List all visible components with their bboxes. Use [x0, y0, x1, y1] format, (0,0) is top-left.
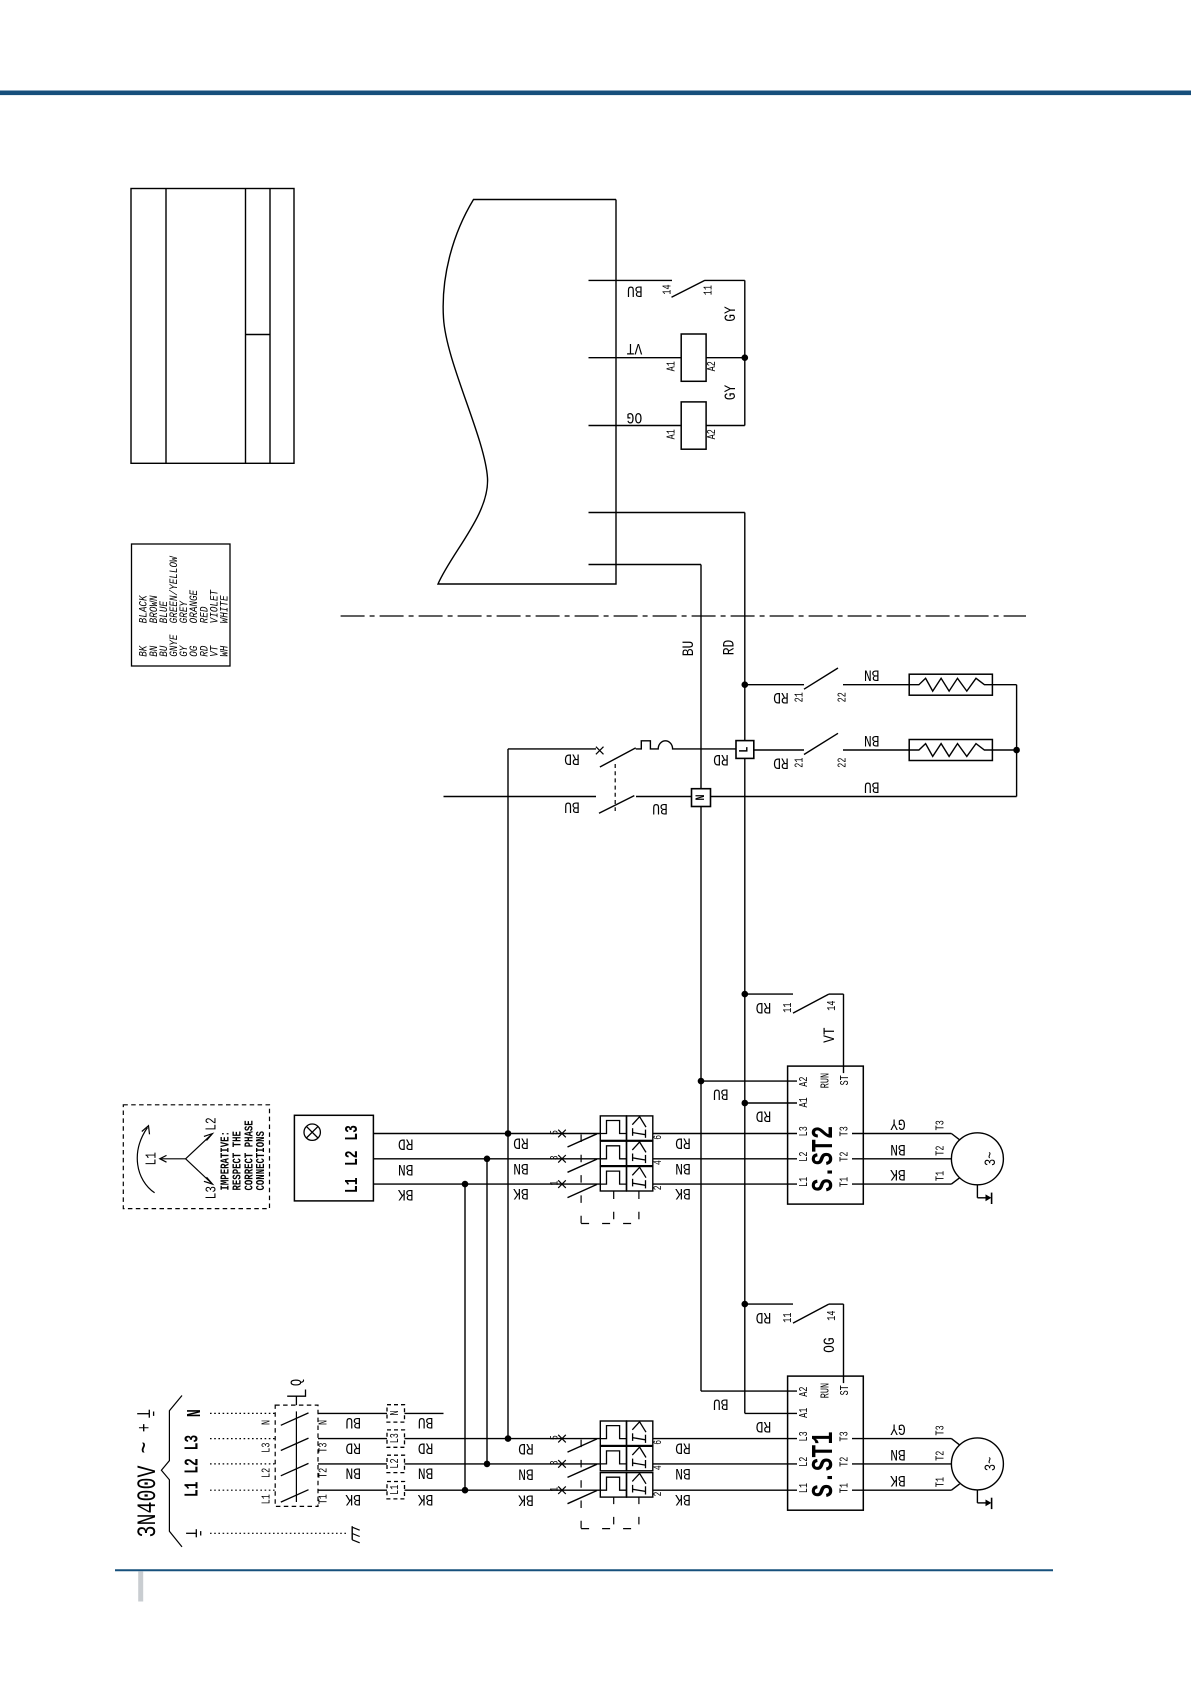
motor breaker Q1 thermal element pole 1 — [600, 1473, 626, 1498]
motor breaker Q2 trip linkage (dashed) — [580, 1135, 582, 1224]
motor breaker Q1 blade 1 — [568, 1491, 598, 1504]
phase rotation note box (dashed) — [123, 1105, 269, 1209]
title block divider column 3 — [269, 189, 271, 464]
S.ST2 terminal stub L2 — [780, 1158, 798, 1160]
svg-text:BU: BU — [713, 1394, 729, 1411]
svg-text:T3: T3 — [317, 1443, 331, 1453]
svg-text:BU: BU — [713, 1084, 729, 1101]
S.ST2 terminal stub T1 — [852, 1183, 880, 1185]
svg-text:~: ~ — [131, 1441, 162, 1453]
wire T3 to motor M1 — [880, 1438, 951, 1440]
S.ST1 terminal stub L2 — [780, 1463, 798, 1465]
start switch S.ST2 blade — [793, 994, 829, 1013]
incoming line L2 (dotted) — [210, 1463, 276, 1465]
motor breaker Q1 magnetic element pole 2 — [627, 1446, 653, 1471]
disconnect pole RD blade — [600, 748, 636, 767]
wire relay K1 A2 to GY bus — [706, 357, 745, 359]
svg-text:S.ST1: S.ST1 — [808, 1431, 843, 1497]
main switch Q pole L3 blade — [281, 1438, 309, 1450]
phasor arrow L3 — [186, 1159, 212, 1183]
motor breaker Q1 blade 3 — [568, 1464, 598, 1477]
svg-text:RD: RD — [513, 1133, 529, 1150]
node junction RD tap S.ST1 — [505, 1435, 512, 1442]
node junction GY at relay K1 A2 — [742, 354, 749, 361]
svg-text:BN: BN — [890, 1139, 906, 1156]
motor breaker Q2 blade 3 — [568, 1159, 598, 1172]
wire relay K2 A2 to GY bus — [706, 425, 745, 427]
board terminal stub BU — [589, 279, 673, 281]
svg-text:BN: BN — [418, 1463, 434, 1480]
svg-text:N: N — [260, 1420, 274, 1425]
wire breaker 2 to S.ST2 L3 — [653, 1133, 780, 1135]
disconnect pole RD wire from bus — [508, 748, 596, 750]
wire BK after terminal block — [405, 1489, 601, 1491]
svg-text:VT: VT — [626, 339, 642, 356]
incoming PE ground symbol — [186, 1532, 196, 1534]
thermostat 2 blade — [804, 733, 838, 754]
wire RD bus vertical — [744, 513, 746, 1414]
node junction RD to heater 1 — [742, 681, 749, 688]
svg-text:OG: OG — [822, 1337, 839, 1353]
terminal L — [736, 741, 754, 759]
svg-text:14: 14 — [661, 284, 675, 294]
svg-text:RD: RD — [756, 1308, 772, 1325]
svg-text:3: 3 — [548, 1155, 561, 1160]
svg-text:RD: RD — [721, 640, 738, 656]
svg-text:22: 22 — [836, 758, 850, 768]
svg-text:BU: BU — [652, 799, 668, 816]
svg-text:A1: A1 — [798, 1097, 812, 1107]
S.ST1 terminal stub T1 — [852, 1489, 880, 1491]
supply grouping brace — [161, 1396, 182, 1547]
svg-text:GY: GY — [890, 1114, 906, 1131]
wire colour legend text — [138, 556, 232, 657]
svg-text:N: N — [389, 1410, 403, 1415]
title block divider column 1 — [165, 189, 167, 464]
main switch Q handle — [287, 1390, 305, 1406]
svg-text:BN: BN — [518, 1464, 534, 1481]
wire terminal N to heater return — [711, 796, 1017, 798]
main switch Q pole N blade — [281, 1413, 309, 1425]
thermostat 1 blade — [804, 668, 838, 689]
S.ST1 terminal stub T3 — [852, 1438, 880, 1440]
terminal block L1 (dashed) — [387, 1482, 405, 1499]
svg-text:BK: BK — [890, 1165, 906, 1182]
svg-text:ST: ST — [839, 1075, 853, 1085]
motor breaker Q2 blade 1 — [568, 1184, 598, 1197]
wire terminal L to thermostat 2 — [754, 749, 804, 751]
incoming PE line (dotted) — [210, 1532, 346, 1534]
svg-text:RD: RD — [756, 998, 772, 1015]
svg-text:4: 4 — [652, 1465, 665, 1470]
wire RD to thermostat 1 — [745, 684, 804, 686]
motor breaker Q2 thermal element pole 1 — [600, 1167, 626, 1192]
svg-text:11: 11 — [702, 285, 716, 295]
phasor arrow L2 — [186, 1135, 212, 1159]
wire breaker 2 to S.ST2 L2 — [653, 1158, 780, 1160]
svg-text:L: L — [738, 747, 753, 753]
svg-text:A2: A2 — [706, 361, 720, 371]
motor M2 (3-phase) — [951, 1133, 1003, 1185]
svg-text:RD: RD — [418, 1438, 434, 1455]
svg-text:T2: T2 — [934, 1146, 948, 1156]
wire BN after terminal block — [405, 1463, 601, 1465]
motor breaker Q1 input terminal 3 cross — [558, 1460, 566, 1468]
node junction RD to S.ST2 start switch — [742, 991, 749, 998]
wire BU bus vertical — [700, 565, 702, 1392]
svg-text:L1: L1 — [143, 1152, 160, 1165]
svg-text:BU: BU — [345, 1413, 361, 1430]
motor breaker Q2 thermal element pole 3 — [600, 1116, 626, 1141]
main switch Q pole L2 blade — [281, 1463, 309, 1475]
svg-text:21: 21 — [793, 692, 807, 702]
wire BU from main switch — [318, 1412, 387, 1414]
svg-text:T1: T1 — [934, 1171, 948, 1181]
svg-text:RD: RD — [398, 1134, 414, 1151]
svg-text:A1: A1 — [798, 1408, 812, 1418]
svg-text:RD: RD — [675, 1438, 691, 1455]
PE earth symbol — [351, 1526, 353, 1540]
S.ST1 terminal stub A1 — [780, 1412, 798, 1414]
svg-text:L3: L3 — [203, 1186, 220, 1199]
svg-text:RD: RD — [713, 750, 729, 767]
svg-text:L1: L1 — [342, 1177, 363, 1193]
wire GY vertical (relay coil bus) — [744, 280, 746, 425]
svg-text:L3: L3 — [389, 1433, 403, 1443]
S.ST2 terminal stub L3 — [780, 1133, 798, 1135]
svg-text:RD: RD — [345, 1438, 361, 1455]
svg-text:WH WHITE: WH WHITE — [219, 595, 232, 657]
motor breaker Q2 magnetic element pole 3 — [627, 1116, 653, 1141]
terminal block L3 (dashed) — [387, 1430, 405, 1447]
board terminal stub VT — [589, 357, 682, 359]
S.ST2 terminal stub A2 — [780, 1080, 798, 1082]
motor breaker Q1 thermal element pole 3 — [600, 1421, 626, 1446]
svg-text:GY: GY — [723, 384, 740, 400]
svg-text:RD: RD — [518, 1439, 534, 1456]
thermostat contact B1 blade — [672, 280, 706, 297]
wire T3 to motor M2 — [880, 1133, 951, 1135]
motor breaker Q2 input terminal 1 cross — [558, 1180, 566, 1188]
svg-text:L2: L2 — [389, 1458, 403, 1468]
control board outline (break line) — [438, 200, 616, 585]
node junction RD at S.ST2 A1 — [742, 1100, 749, 1107]
svg-text:4: 4 — [652, 1160, 665, 1165]
wire heater 2 to junction — [992, 749, 1016, 751]
svg-text:11: 11 — [782, 1003, 796, 1013]
wire T1 to motor M2 — [880, 1183, 951, 1185]
svg-text:N: N — [694, 794, 709, 800]
wire heater 1 to BU return — [992, 684, 1016, 686]
svg-text:BN: BN — [675, 1464, 691, 1481]
motor breaker Q1 blade 5 — [568, 1439, 598, 1452]
svg-text:14: 14 — [826, 1001, 840, 1011]
title block frame — [131, 189, 294, 464]
svg-text:3~: 3~ — [983, 1457, 1001, 1471]
motor breaker Q2 thermal element pole 2 — [600, 1141, 626, 1166]
node junction heater 2 return — [1013, 747, 1020, 754]
motor breaker Q1 magnetic element pole 3 — [627, 1421, 653, 1446]
svg-text:BN: BN — [345, 1463, 361, 1480]
svg-text:BK: BK — [518, 1490, 534, 1507]
svg-text:T3: T3 — [934, 1120, 948, 1130]
svg-text:T2: T2 — [934, 1451, 948, 1461]
svg-text:Q: Q — [289, 1379, 307, 1386]
incoming line L3 (dotted) — [210, 1438, 276, 1440]
S.ST1 terminal stub L3 — [780, 1438, 798, 1440]
disconnect pole BU blade — [599, 796, 634, 814]
svg-text:A2: A2 — [798, 1387, 812, 1397]
motor M1 earth connection — [976, 1490, 978, 1503]
svg-text:BU: BU — [564, 797, 580, 814]
svg-text:T2: T2 — [317, 1468, 331, 1478]
svg-text:ST: ST — [839, 1385, 853, 1395]
node junction RD to S.ST1 start switch — [742, 1301, 749, 1308]
wire RD after terminal block — [405, 1438, 601, 1440]
soft starter S.ST2 box — [788, 1066, 864, 1204]
relay coil K2 — [681, 402, 706, 449]
svg-text:6: 6 — [652, 1135, 665, 1140]
motor breaker Q2 input terminal 3 cross — [558, 1155, 566, 1163]
svg-text:RD: RD — [756, 1106, 772, 1123]
wire T2 to motor M2 — [880, 1158, 951, 1160]
motor breaker Q2 magnetic element pole 2 — [627, 1141, 653, 1166]
disconnect pole RD contact cross — [596, 747, 604, 755]
svg-text:A2: A2 — [706, 429, 720, 439]
svg-text:CONNECTIONS: CONNECTIONS — [255, 1131, 269, 1191]
svg-text:5: 5 — [548, 1130, 561, 1135]
svg-text:L3: L3 — [260, 1443, 274, 1453]
svg-text:L1 L2 L3: L1 L2 L3 — [181, 1435, 203, 1497]
main switch Q pole L1 blade — [281, 1490, 309, 1502]
svg-text:RD: RD — [564, 749, 580, 766]
svg-text:GY: GY — [890, 1419, 906, 1436]
wire BN riser to S.ST2 — [486, 1159, 488, 1464]
soft starter S.ST1 box — [788, 1376, 864, 1510]
phase wire L2 (lamp to breaker 2) — [373, 1158, 600, 1160]
svg-text:T1: T1 — [934, 1477, 948, 1487]
svg-text:BU: BU — [681, 641, 698, 657]
terminal block N (dashed) — [387, 1405, 405, 1422]
footer caret mark — [138, 1572, 143, 1602]
node junction BN tap S.ST1 — [484, 1461, 491, 1468]
svg-text:BK: BK — [417, 1490, 433, 1507]
svg-text:BU: BU — [418, 1413, 434, 1430]
phasor diagram centre — [162, 1158, 186, 1160]
board terminal stub BU (neutral) — [589, 564, 702, 566]
svg-text:S.ST2: S.ST2 — [808, 1126, 843, 1192]
motor breaker Q1 magnetic element pole 1 — [627, 1473, 653, 1498]
svg-text:6: 6 — [652, 1440, 665, 1445]
motor breaker Q1 input terminal 5 cross — [558, 1435, 566, 1443]
motor breaker Q2 magnetic element pole 1 — [627, 1167, 653, 1192]
svg-text:L3: L3 — [342, 1125, 363, 1141]
svg-text:BN: BN — [398, 1159, 414, 1176]
wire colour legend box — [132, 544, 231, 666]
svg-text:2: 2 — [652, 1185, 665, 1190]
svg-text:21: 21 — [793, 758, 807, 768]
wire RD from main switch — [318, 1438, 387, 1440]
svg-text:L1: L1 — [260, 1494, 274, 1504]
svg-text:RUN: RUN — [819, 1383, 833, 1398]
phase note text — [219, 1120, 268, 1190]
svg-text:BK: BK — [398, 1185, 414, 1202]
wire RD to start switch S.ST2 — [745, 993, 793, 995]
S.ST1 terminal stub L1 — [780, 1489, 798, 1491]
svg-text:11: 11 — [782, 1313, 796, 1323]
wire blade to terminal N — [636, 796, 692, 798]
motor breaker Q2 blade 5 — [568, 1134, 598, 1147]
title block row divider — [246, 334, 271, 336]
svg-text:BU: BU — [627, 281, 643, 298]
svg-text:BK: BK — [890, 1471, 906, 1488]
svg-text:BN: BN — [513, 1158, 529, 1175]
wire RD riser to S.ST2 — [507, 749, 509, 1439]
wire BU bus to S.ST2 A2 — [701, 1080, 780, 1082]
wire RD bus to S.ST2 A1 — [745, 1102, 780, 1104]
svg-text:3~: 3~ — [983, 1152, 1001, 1166]
heating element R2 — [909, 740, 992, 761]
node junction BK tap S.ST2 — [462, 1181, 469, 1188]
phase wire L1 (lamp to breaker 2) — [373, 1183, 600, 1185]
wire BN from main switch — [318, 1463, 387, 1465]
footer rule — [115, 1569, 1053, 1571]
header rule (blue bar) — [0, 91, 1191, 96]
svg-text:+: + — [135, 1423, 156, 1432]
title block divider column 2 — [245, 189, 247, 464]
svg-text:BN: BN — [864, 665, 880, 682]
incoming line N (dotted) — [210, 1412, 276, 1414]
motor breaker Q1 thermal element pole 2 — [600, 1446, 626, 1471]
main switch Q enclosure (dashed) — [275, 1405, 318, 1506]
wire RD bus to S.ST1 A1 — [745, 1412, 780, 1414]
motor M2 earth connection — [976, 1185, 978, 1198]
node junction BK tap S.ST1 — [462, 1487, 469, 1494]
svg-text:A1: A1 — [665, 429, 679, 439]
motor breaker Q1 input terminal 1 cross — [558, 1486, 566, 1494]
svg-text:BU: BU — [864, 777, 880, 794]
board terminal stub RD — [589, 512, 745, 514]
heating element R1 — [909, 674, 992, 695]
wire BU bus to S.ST1 A2 — [701, 1390, 780, 1392]
svg-text:L2: L2 — [260, 1468, 274, 1478]
indicator lamp symbol — [304, 1124, 320, 1140]
wire breaker 1 to S.ST1 L3 — [653, 1438, 780, 1440]
svg-text:3N400V: 3N400V — [133, 1465, 164, 1538]
disconnect linkage (dashed) — [614, 764, 616, 811]
svg-text:VT: VT — [822, 1027, 839, 1043]
svg-text:BN: BN — [864, 731, 880, 748]
wire from contact B1 to GY net — [705, 279, 745, 281]
svg-text:1: 1 — [548, 1181, 561, 1186]
node junction RD tap S.ST2 — [505, 1130, 512, 1137]
svg-text:BK: BK — [513, 1184, 529, 1201]
motor breaker Q2 input terminal 5 cross — [558, 1130, 566, 1138]
wire breaker 1 to S.ST1 L2 — [653, 1463, 780, 1465]
svg-text:22: 22 — [836, 692, 850, 702]
svg-text:L2: L2 — [203, 1117, 220, 1130]
wire BK from main switch — [318, 1489, 387, 1491]
S.ST2 terminal stub T3 — [852, 1133, 880, 1135]
terminal block L2 (dashed) — [387, 1455, 405, 1472]
supply PE symbol (in rating) — [137, 1413, 149, 1415]
svg-text:BN: BN — [890, 1445, 906, 1462]
svg-text:OG: OG — [627, 408, 643, 425]
incoming line L1 (dotted) — [210, 1489, 276, 1491]
wire start switch S.ST2 to ST input — [829, 993, 844, 995]
S.ST2 terminal stub T2 — [852, 1158, 880, 1160]
S.ST1 terminal stub T2 — [852, 1463, 880, 1465]
wire T1 to motor M1 — [880, 1489, 951, 1491]
main switch Q linkage — [295, 1411, 297, 1502]
svg-text:RD: RD — [675, 1133, 691, 1150]
svg-text:N: N — [317, 1420, 331, 1425]
S.ST2 terminal stub L1 — [780, 1183, 798, 1185]
motor breaker Q1 trip linkage (dashed) — [580, 1440, 582, 1529]
node junction BU at S.ST2 A2 — [698, 1078, 705, 1085]
svg-text:14: 14 — [826, 1311, 840, 1321]
svg-text:BK: BK — [675, 1490, 691, 1507]
board terminal stub OG — [589, 425, 682, 427]
motor M1 (3-phase) — [951, 1438, 1003, 1490]
S.ST1 terminal stub A2 — [780, 1390, 798, 1392]
phasor arrow L1 — [160, 1155, 167, 1162]
svg-text:A1: A1 — [665, 361, 679, 371]
phase rotation arrow arc — [137, 1128, 154, 1193]
wire BU after terminal block — [405, 1412, 444, 1414]
wire thermostat 2 to heater 2 — [843, 749, 909, 751]
wire BU return vertical — [1016, 685, 1018, 797]
wire breaker 2 to S.ST2 L1 — [653, 1183, 780, 1185]
indicator unit box — [294, 1115, 373, 1201]
svg-text:RD: RD — [773, 753, 789, 770]
svg-text:A2: A2 — [798, 1077, 812, 1087]
wire thermostat 1 to heater 1 — [843, 684, 909, 686]
svg-text:RD: RD — [773, 688, 789, 705]
terminal N — [692, 789, 711, 807]
svg-text:N: N — [184, 1409, 206, 1417]
relay coil K1 — [681, 334, 706, 381]
svg-text:L1: L1 — [389, 1485, 403, 1495]
wire BK riser to S.ST2 — [464, 1184, 466, 1490]
svg-text:T3: T3 — [934, 1425, 948, 1435]
S.ST2 terminal stub A1 — [780, 1102, 798, 1104]
svg-text:BK: BK — [675, 1184, 691, 1201]
svg-text:BN: BN — [675, 1158, 691, 1175]
wire T2 to motor M1 — [880, 1463, 951, 1465]
wire RD to start switch S.ST1 — [745, 1303, 793, 1305]
enclosure boundary line (dash-dot) — [341, 615, 1026, 617]
svg-text:RUN: RUN — [819, 1073, 833, 1088]
wire breaker 1 to S.ST1 L1 — [653, 1489, 780, 1491]
svg-text:RD: RD — [756, 1416, 772, 1433]
svg-text:2: 2 — [652, 1491, 665, 1496]
svg-text:L2: L2 — [342, 1150, 363, 1166]
wire start switch S.ST1 to ST input — [829, 1303, 844, 1305]
phase wire L3 (lamp to breaker 2) — [373, 1133, 600, 1135]
fuse element F1 (bump and arc) — [636, 741, 736, 749]
disconnect pole BU wire — [444, 796, 597, 798]
svg-text:BK: BK — [345, 1490, 361, 1507]
node junction BN tap S.ST2 — [484, 1156, 491, 1163]
svg-text:GY: GY — [723, 306, 740, 322]
start switch S.ST1 blade — [793, 1304, 829, 1323]
svg-text:T1: T1 — [317, 1494, 331, 1504]
